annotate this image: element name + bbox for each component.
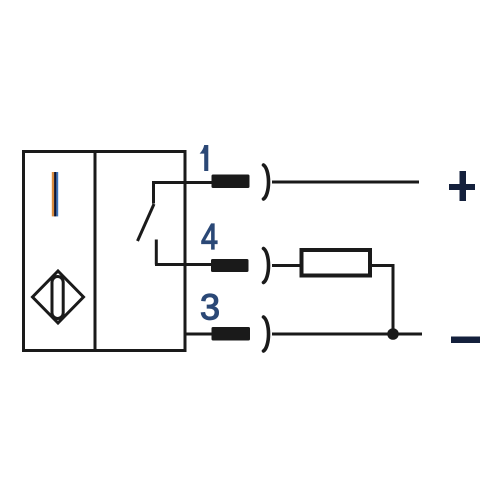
load resistor: [302, 250, 371, 276]
wire pin4 from switch to pin: [155, 263, 212, 266]
switch lower contact stub: [155, 240, 158, 265]
switch upper contact stub: [152, 181, 155, 204]
switch blade (open): [138, 204, 155, 241]
wire corner down to minus line: [392, 264, 395, 334]
minus sign: [451, 337, 480, 344]
active face bar (navy stripe): [54, 172, 56, 216]
wire resistor to corner: [370, 264, 393, 267]
pin label 1: [200, 145, 209, 171]
pin 4 terminal block: [211, 259, 249, 272]
active face bar (blue stripe): [56, 172, 58, 216]
sensor body divider: [94, 152, 97, 351]
plus sign horizontal bar: [449, 184, 475, 190]
pin 1 connector arc: [264, 165, 269, 199]
wire arc4 to resistor: [272, 264, 302, 267]
wire pin1 to plus: [272, 181, 419, 184]
pin 1 terminal block: [212, 175, 250, 189]
wire pin1 from switch to pin: [152, 181, 212, 184]
pin 4 connector arc: [264, 249, 269, 283]
sensor body outline: [24, 152, 186, 351]
plus sign vertical bar: [460, 171, 467, 201]
wire pin3 to minus: [272, 333, 422, 336]
active face bar (orange stripe): [52, 172, 54, 216]
proximity sensor diamond: [33, 271, 84, 323]
svg-text:3: 3: [200, 287, 220, 328]
diamond inner capsule: [52, 277, 63, 319]
wire pin3 from box to pin: [185, 333, 212, 336]
pin 3 terminal block: [212, 327, 251, 341]
svg-text:4: 4: [201, 216, 218, 257]
junction dot: [387, 328, 399, 340]
pin 3 connector arc: [264, 317, 269, 351]
